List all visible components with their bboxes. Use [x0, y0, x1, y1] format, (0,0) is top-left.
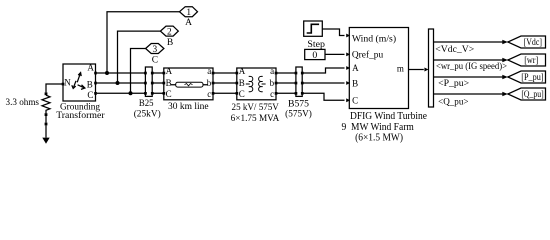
- wire step to Wind input: [322, 29, 344, 36]
- bus bar B25: [144, 67, 153, 96]
- distributed line icon: [171, 84, 208, 86]
- svg-text:[wr]: [wr]: [524, 55, 538, 65]
- svg-text:<Vdc_V>: <Vdc_V>: [435, 44, 474, 54]
- svg-text:(25kV): (25kV): [134, 109, 161, 120]
- svg-text:b: b: [270, 78, 275, 88]
- svg-text:A: A: [239, 66, 246, 76]
- svg-text:[P_pu]: [P_pu]: [521, 72, 543, 82]
- svg-text:B: B: [239, 78, 245, 88]
- svg-text:B: B: [352, 78, 358, 88]
- svg-text:C: C: [87, 90, 93, 100]
- svg-text:25 kV/ 575V: 25 kV/ 575V: [232, 102, 279, 113]
- svg-text:B25: B25: [139, 98, 154, 109]
- signal wire Q_pu: [434, 93, 504, 95]
- arrowhead into A: [346, 66, 350, 70]
- svg-text:Step: Step: [307, 39, 325, 50]
- svg-text:Qref_pu: Qref_pu: [352, 50, 384, 61]
- port squares: [236, 72, 239, 75]
- wire N to resistor: [46, 84, 63, 92]
- svg-text:C: C: [352, 96, 358, 106]
- resistor R 3.3 ohms: [42, 92, 50, 122]
- winding icon: [246, 83, 250, 85]
- svg-text:c: c: [270, 89, 274, 99]
- svg-text:A: A: [87, 63, 94, 73]
- signal wire wr_pu: [434, 59, 504, 61]
- svg-text:a: a: [270, 66, 274, 76]
- svg-text:C: C: [152, 55, 158, 65]
- svg-text:[Q_pu]: [Q_pu]: [521, 89, 543, 99]
- bus B wire: [97, 82, 345, 84]
- bus A wire: [97, 68, 345, 73]
- constant 0 block: [305, 49, 325, 60]
- svg-text:m: m: [397, 63, 404, 73]
- signal wire Vdc_V: [434, 41, 504, 43]
- goto tag wr: [508, 54, 546, 66]
- svg-text:1: 1: [186, 8, 191, 18]
- arrowhead into bus selector: [424, 68, 428, 72]
- wire m to bus selector: [409, 69, 424, 71]
- svg-text:DFIG Wind Turbine: DFIG Wind Turbine: [350, 111, 428, 122]
- DFIG wind turbine block: [349, 28, 408, 109]
- output port 2: [116, 26, 179, 85]
- svg-text:A: A: [352, 63, 359, 73]
- port squares: [62, 83, 65, 86]
- output port 3: [129, 44, 164, 96]
- transformer block 25kV/575V: [236, 66, 278, 100]
- svg-text:Wind (m/s): Wind (m/s): [352, 34, 396, 45]
- goto tag P_pu: [508, 71, 546, 83]
- wire 0 to Qref input: [325, 53, 345, 55]
- bus bar B575: [295, 67, 304, 96]
- step source block: [304, 21, 323, 36]
- svg-text:A: A: [166, 66, 173, 76]
- svg-text:B: B: [167, 38, 173, 48]
- svg-text:B: B: [87, 79, 93, 89]
- goto tag Q_pu: [508, 88, 546, 100]
- port squares: [163, 72, 166, 75]
- signal wire P_pu: [434, 76, 504, 78]
- svg-text:b: b: [207, 78, 212, 88]
- svg-text:<wr_pu (IG speed)>: <wr_pu (IG speed)>: [436, 61, 507, 71]
- svg-text:B: B: [166, 78, 172, 88]
- bus C wire: [97, 93, 345, 100]
- svg-text:(6×1.5 MW): (6×1.5 MW): [355, 133, 403, 144]
- svg-text:N: N: [64, 77, 71, 87]
- svg-text:C: C: [166, 89, 172, 99]
- svg-text:3.3 ohms: 3.3 ohms: [6, 97, 40, 108]
- goto tag Vdc: [508, 36, 546, 48]
- svg-text:c: c: [207, 89, 211, 99]
- svg-text:a: a: [207, 66, 211, 76]
- arrowhead into B: [346, 81, 350, 85]
- svg-text:30 km line: 30 km line: [168, 101, 209, 112]
- arrowhead into Wind: [346, 34, 350, 38]
- svg-text:6×1.75 MVA: 6×1.75 MVA: [231, 113, 280, 124]
- bus selector: [429, 29, 434, 107]
- svg-text:(575V): (575V): [285, 109, 312, 120]
- svg-text:<P_pu>: <P_pu>: [438, 78, 469, 88]
- grounding transformer block U1: [62, 63, 97, 101]
- arrowhead into Qref: [346, 53, 350, 57]
- output port 1: [105, 7, 198, 75]
- svg-text:C: C: [239, 89, 245, 99]
- svg-text:[Vdc]: [Vdc]: [524, 37, 542, 47]
- svg-text:9 MW Wind Farm: 9 MW Wind Farm: [342, 122, 414, 133]
- ground: [42, 123, 49, 144]
- svg-text:<Q_pu>: <Q_pu>: [438, 96, 468, 106]
- svg-text:A: A: [185, 18, 192, 28]
- zigzag winding icon: [77, 74, 80, 83]
- svg-text:2: 2: [167, 27, 172, 37]
- arrowhead into C: [346, 98, 350, 102]
- svg-text:0: 0: [312, 50, 317, 61]
- 30 km line block: [163, 66, 215, 100]
- svg-text:3: 3: [153, 45, 158, 55]
- svg-text:Transformer: Transformer: [56, 110, 105, 121]
